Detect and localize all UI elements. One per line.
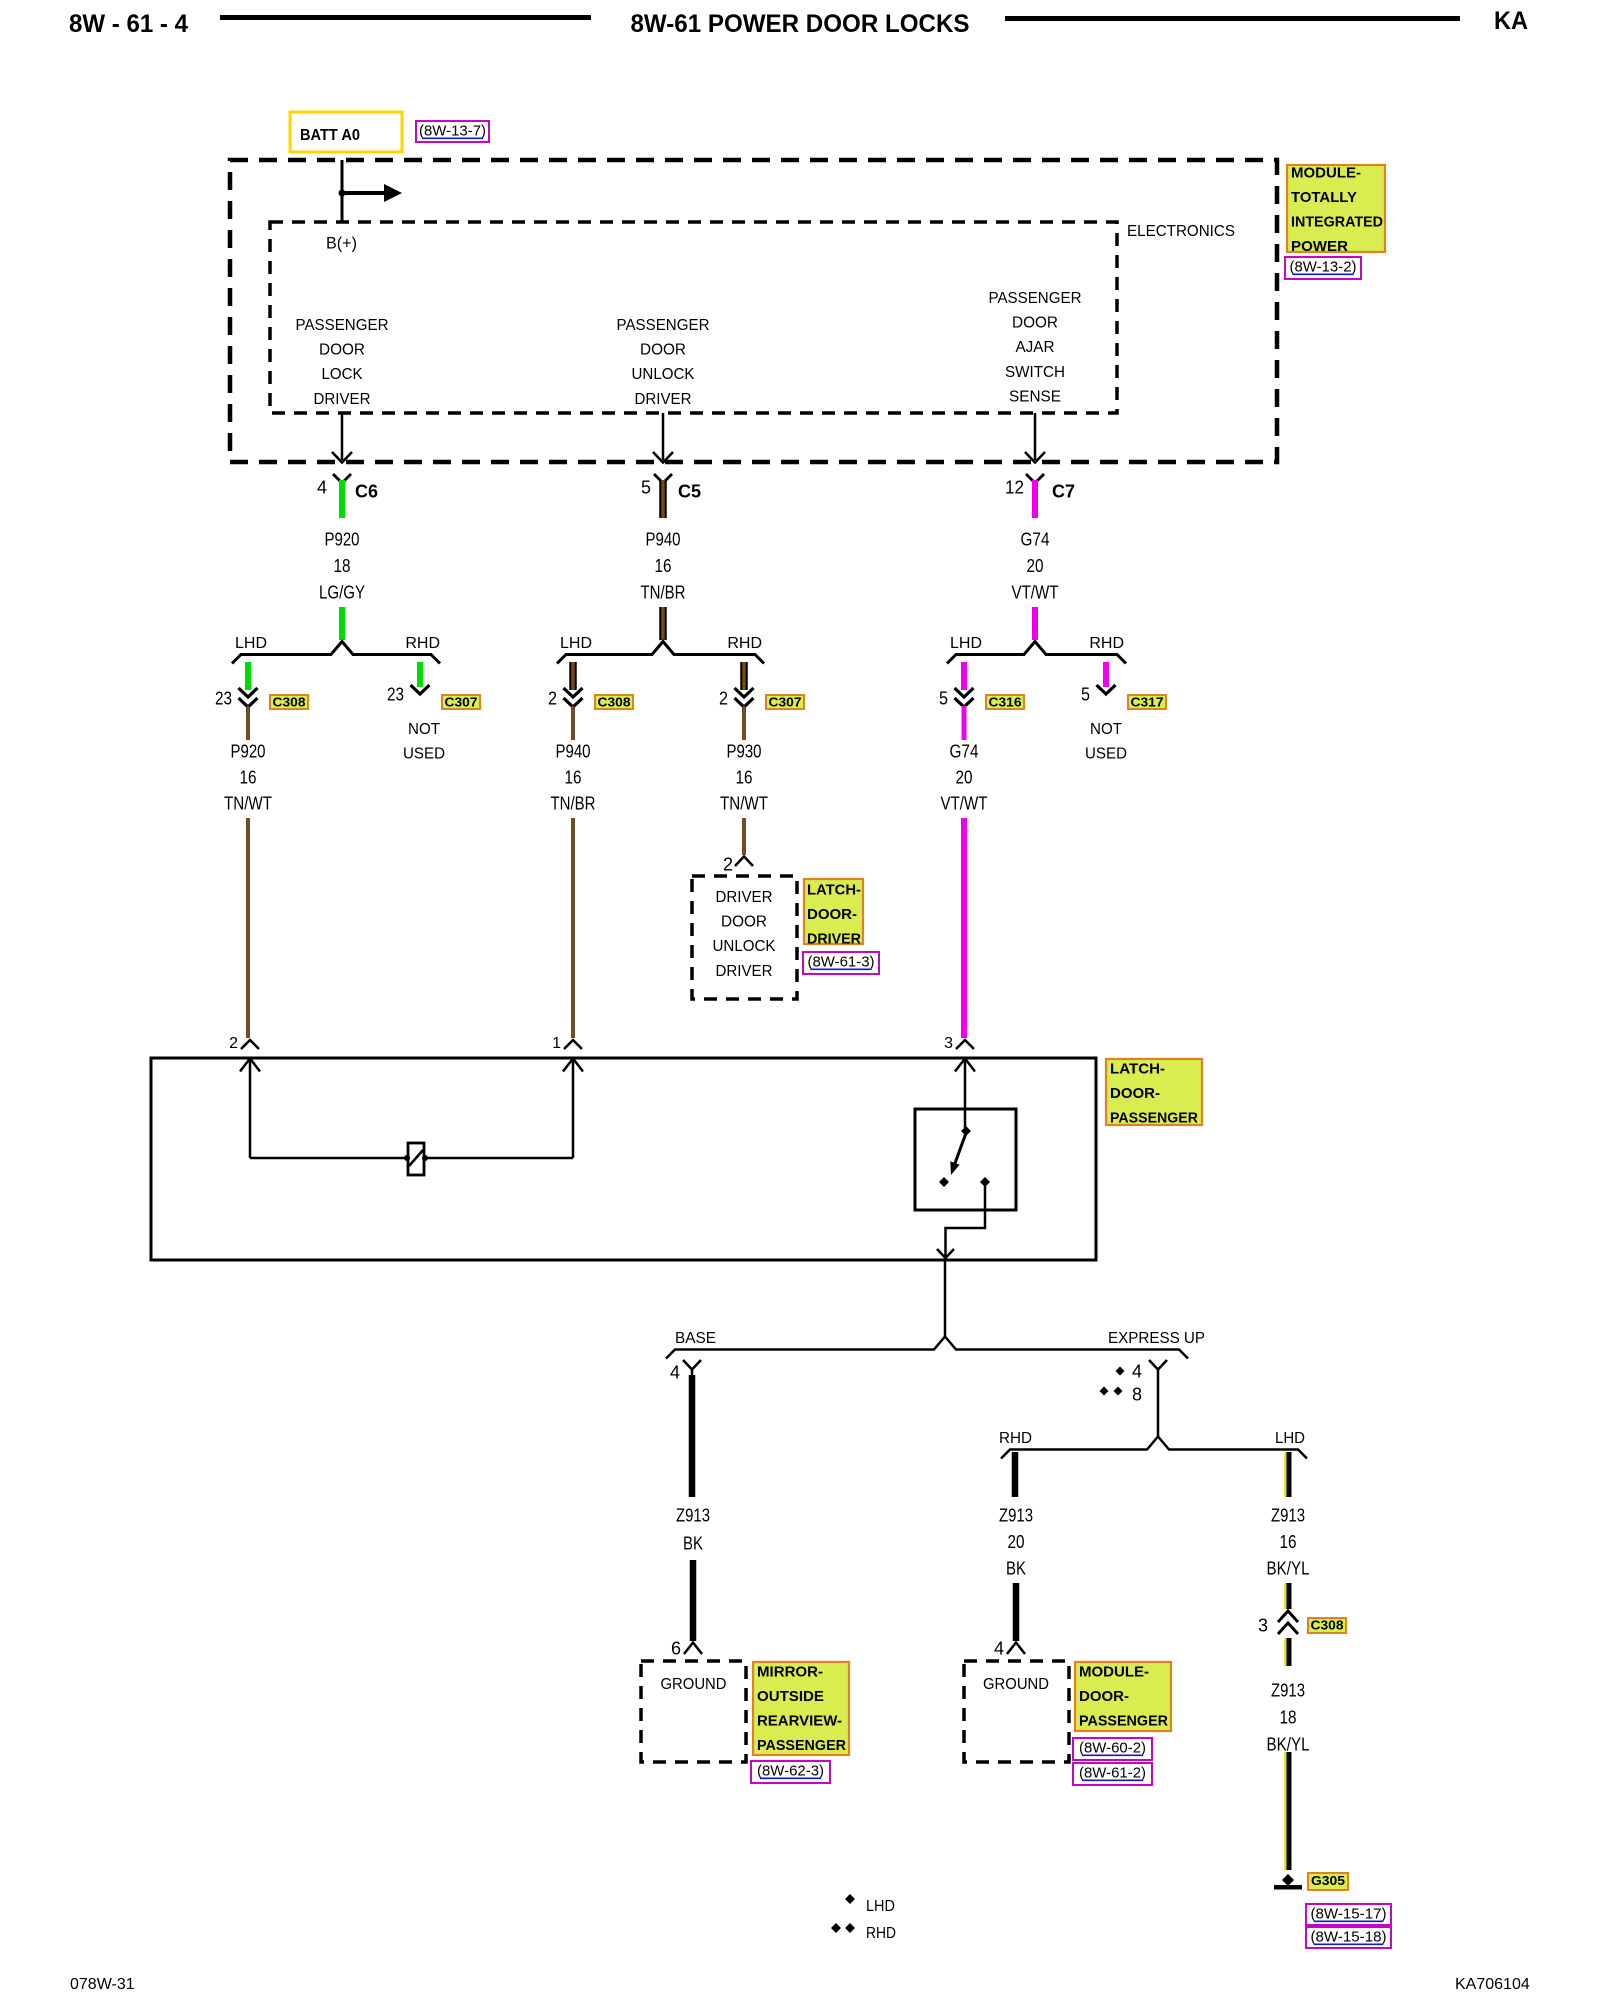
svg-text:23: 23 — [387, 684, 404, 704]
svg-text:DOOR: DOOR — [721, 914, 767, 931]
svg-text:G305: G305 — [1311, 1873, 1345, 1888]
svg-text:DOOR-: DOOR- — [1110, 1085, 1160, 1102]
svg-text:(8W-13-2): (8W-13-2) — [1290, 258, 1357, 275]
svg-text:DRIVER: DRIVER — [807, 931, 861, 948]
svg-text:12: 12 — [1005, 477, 1024, 497]
svg-text:8W-61 POWER DOOR LOCKS: 8W-61 POWER DOOR LOCKS — [631, 10, 970, 38]
svg-text:LG/GY: LG/GY — [319, 582, 365, 602]
svg-text:PASSENGER: PASSENGER — [989, 290, 1082, 307]
svg-text:BASE: BASE — [675, 1330, 716, 1347]
svg-text:C307: C307 — [445, 695, 478, 710]
svg-text:BATT A0: BATT A0 — [300, 127, 360, 144]
svg-text:Z913: Z913 — [1271, 1680, 1305, 1700]
svg-text:LHD: LHD — [866, 1898, 895, 1915]
svg-text:GROUND: GROUND — [983, 1676, 1049, 1693]
svg-text:(8W-13-7): (8W-13-7) — [419, 122, 486, 139]
svg-text:(8W-61-2): (8W-61-2) — [1079, 1764, 1146, 1781]
svg-text:SWITCH: SWITCH — [1005, 364, 1065, 381]
svg-text:16: 16 — [736, 767, 753, 787]
svg-text:C307: C307 — [769, 695, 802, 710]
svg-text:RHD: RHD — [1089, 635, 1124, 652]
svg-text:4: 4 — [317, 477, 327, 497]
svg-text:LHD: LHD — [950, 635, 982, 652]
svg-text:DRIVER: DRIVER — [716, 963, 773, 980]
svg-text:DOOR: DOOR — [640, 342, 686, 359]
svg-text:16: 16 — [655, 556, 672, 576]
svg-text:18: 18 — [1280, 1707, 1297, 1727]
svg-text:3: 3 — [1258, 1615, 1268, 1635]
svg-text:P920: P920 — [231, 741, 266, 761]
svg-text:Z913: Z913 — [1271, 1505, 1305, 1525]
svg-text:POWER: POWER — [1291, 238, 1348, 255]
svg-text:4: 4 — [994, 1638, 1004, 1658]
svg-text:16: 16 — [1280, 1532, 1297, 1552]
svg-text:078W-31: 078W-31 — [70, 1976, 135, 1993]
svg-text:C5: C5 — [678, 481, 701, 501]
svg-text:DOOR: DOOR — [1012, 315, 1058, 332]
svg-text:PASSENGER: PASSENGER — [296, 317, 389, 334]
svg-text:DOOR: DOOR — [319, 342, 365, 359]
svg-text:VT/WT: VT/WT — [941, 793, 988, 813]
svg-text:KA706104: KA706104 — [1455, 1976, 1530, 1993]
svg-text:(8W-15-18): (8W-15-18) — [1311, 1928, 1387, 1945]
svg-text:LHD: LHD — [235, 635, 267, 652]
svg-text:UNLOCK: UNLOCK — [713, 938, 776, 955]
svg-text:RHD: RHD — [866, 1925, 896, 1942]
svg-text:4: 4 — [1132, 1361, 1142, 1381]
svg-text:20: 20 — [956, 767, 973, 787]
svg-text:AJAR: AJAR — [1016, 339, 1055, 356]
svg-text:5: 5 — [939, 688, 948, 708]
svg-text:OUTSIDE: OUTSIDE — [757, 1688, 824, 1705]
svg-text:PASSENGER: PASSENGER — [1079, 1713, 1168, 1730]
svg-text:16: 16 — [240, 767, 257, 787]
svg-text:REARVIEW-: REARVIEW- — [757, 1713, 842, 1730]
svg-text:NOT: NOT — [408, 721, 440, 738]
svg-text:18: 18 — [334, 556, 351, 576]
svg-text:TN/BR: TN/BR — [641, 582, 686, 602]
svg-text:LATCH-: LATCH- — [1110, 1060, 1165, 1077]
svg-text:UNLOCK: UNLOCK — [632, 366, 695, 383]
svg-text:(8W-61-3): (8W-61-3) — [808, 953, 875, 970]
svg-text:MODULE-: MODULE- — [1291, 164, 1361, 181]
svg-text:RHD: RHD — [727, 635, 762, 652]
svg-text:BK/YL: BK/YL — [1267, 1734, 1310, 1754]
svg-text:INTEGRATED: INTEGRATED — [1291, 214, 1383, 231]
svg-text:G74: G74 — [950, 741, 979, 761]
svg-text:DOOR-: DOOR- — [1079, 1688, 1129, 1705]
svg-text:5: 5 — [641, 477, 651, 497]
svg-text:5: 5 — [1081, 684, 1090, 704]
svg-text:C308: C308 — [1311, 1618, 1344, 1633]
svg-text:BK: BK — [1006, 1558, 1026, 1578]
svg-text:20: 20 — [1027, 556, 1044, 576]
svg-text:LATCH-: LATCH- — [807, 881, 861, 898]
svg-text:23: 23 — [215, 688, 232, 708]
svg-text:(8W-62-3): (8W-62-3) — [757, 1762, 824, 1779]
svg-text:P940: P940 — [646, 529, 681, 549]
svg-text:VT/WT: VT/WT — [1012, 582, 1059, 602]
svg-text:P940: P940 — [556, 741, 591, 761]
svg-text:PASSENGER: PASSENGER — [757, 1737, 846, 1754]
svg-text:B(+): B(+) — [326, 234, 357, 253]
svg-text:P920: P920 — [325, 529, 360, 549]
svg-text:(8W-60-2): (8W-60-2) — [1079, 1739, 1146, 1756]
svg-text:DOOR-: DOOR- — [807, 906, 857, 923]
svg-text:C6: C6 — [355, 481, 378, 501]
svg-text:2: 2 — [548, 688, 557, 708]
svg-text:C317: C317 — [1131, 695, 1164, 710]
svg-text:TOTALLY: TOTALLY — [1291, 189, 1357, 206]
svg-text:20: 20 — [1008, 1532, 1025, 1552]
svg-text:1: 1 — [552, 1035, 561, 1052]
svg-text:RHD: RHD — [999, 1430, 1032, 1447]
svg-text:3: 3 — [944, 1035, 953, 1052]
svg-text:ELECTRONICS: ELECTRONICS — [1127, 223, 1235, 240]
svg-text:TN/WT: TN/WT — [720, 793, 768, 813]
svg-text:C7: C7 — [1052, 481, 1075, 501]
svg-text:DRIVER: DRIVER — [314, 391, 371, 408]
svg-text:EXPRESS UP: EXPRESS UP — [1108, 1330, 1205, 1347]
svg-text:PASSENGER: PASSENGER — [617, 317, 710, 334]
svg-text:6: 6 — [671, 1638, 681, 1658]
svg-text:PASSENGER: PASSENGER — [1110, 1110, 1198, 1127]
svg-text:8: 8 — [1132, 1384, 1142, 1404]
svg-text:LHD: LHD — [1275, 1430, 1305, 1447]
svg-text:Z913: Z913 — [999, 1505, 1033, 1525]
svg-text:BK/YL: BK/YL — [1267, 1558, 1310, 1578]
svg-text:TN/BR: TN/BR — [551, 793, 596, 813]
svg-text:DRIVER: DRIVER — [635, 391, 692, 408]
svg-text:BK: BK — [683, 1533, 703, 1553]
svg-text:2: 2 — [719, 688, 728, 708]
svg-text:G74: G74 — [1021, 529, 1050, 549]
svg-text:Z913: Z913 — [676, 1505, 710, 1525]
svg-text:DRIVER: DRIVER — [716, 889, 773, 906]
svg-text:LHD: LHD — [560, 635, 592, 652]
svg-text:USED: USED — [403, 746, 445, 763]
svg-text:16: 16 — [565, 767, 582, 787]
svg-text:TN/WT: TN/WT — [224, 793, 272, 813]
svg-text:MODULE-: MODULE- — [1079, 1663, 1149, 1680]
svg-text:RHD: RHD — [405, 635, 440, 652]
svg-text:NOT: NOT — [1090, 721, 1122, 738]
svg-text:LOCK: LOCK — [322, 366, 363, 383]
svg-text:SENSE: SENSE — [1009, 388, 1061, 405]
svg-text:C308: C308 — [598, 695, 631, 710]
svg-text:KA: KA — [1494, 7, 1528, 35]
svg-text:4: 4 — [670, 1362, 680, 1382]
svg-text:C308: C308 — [273, 695, 306, 710]
svg-text:(8W-15-17): (8W-15-17) — [1311, 1905, 1387, 1922]
svg-text:2: 2 — [229, 1035, 238, 1052]
svg-text:C316: C316 — [989, 695, 1022, 710]
svg-text:8W - 61 - 4: 8W - 61 - 4 — [69, 10, 188, 38]
svg-text:MIRROR-: MIRROR- — [757, 1663, 823, 1680]
svg-text:2: 2 — [723, 854, 733, 874]
svg-text:GROUND: GROUND — [661, 1676, 727, 1693]
svg-text:P930: P930 — [727, 741, 762, 761]
svg-text:USED: USED — [1085, 746, 1127, 763]
